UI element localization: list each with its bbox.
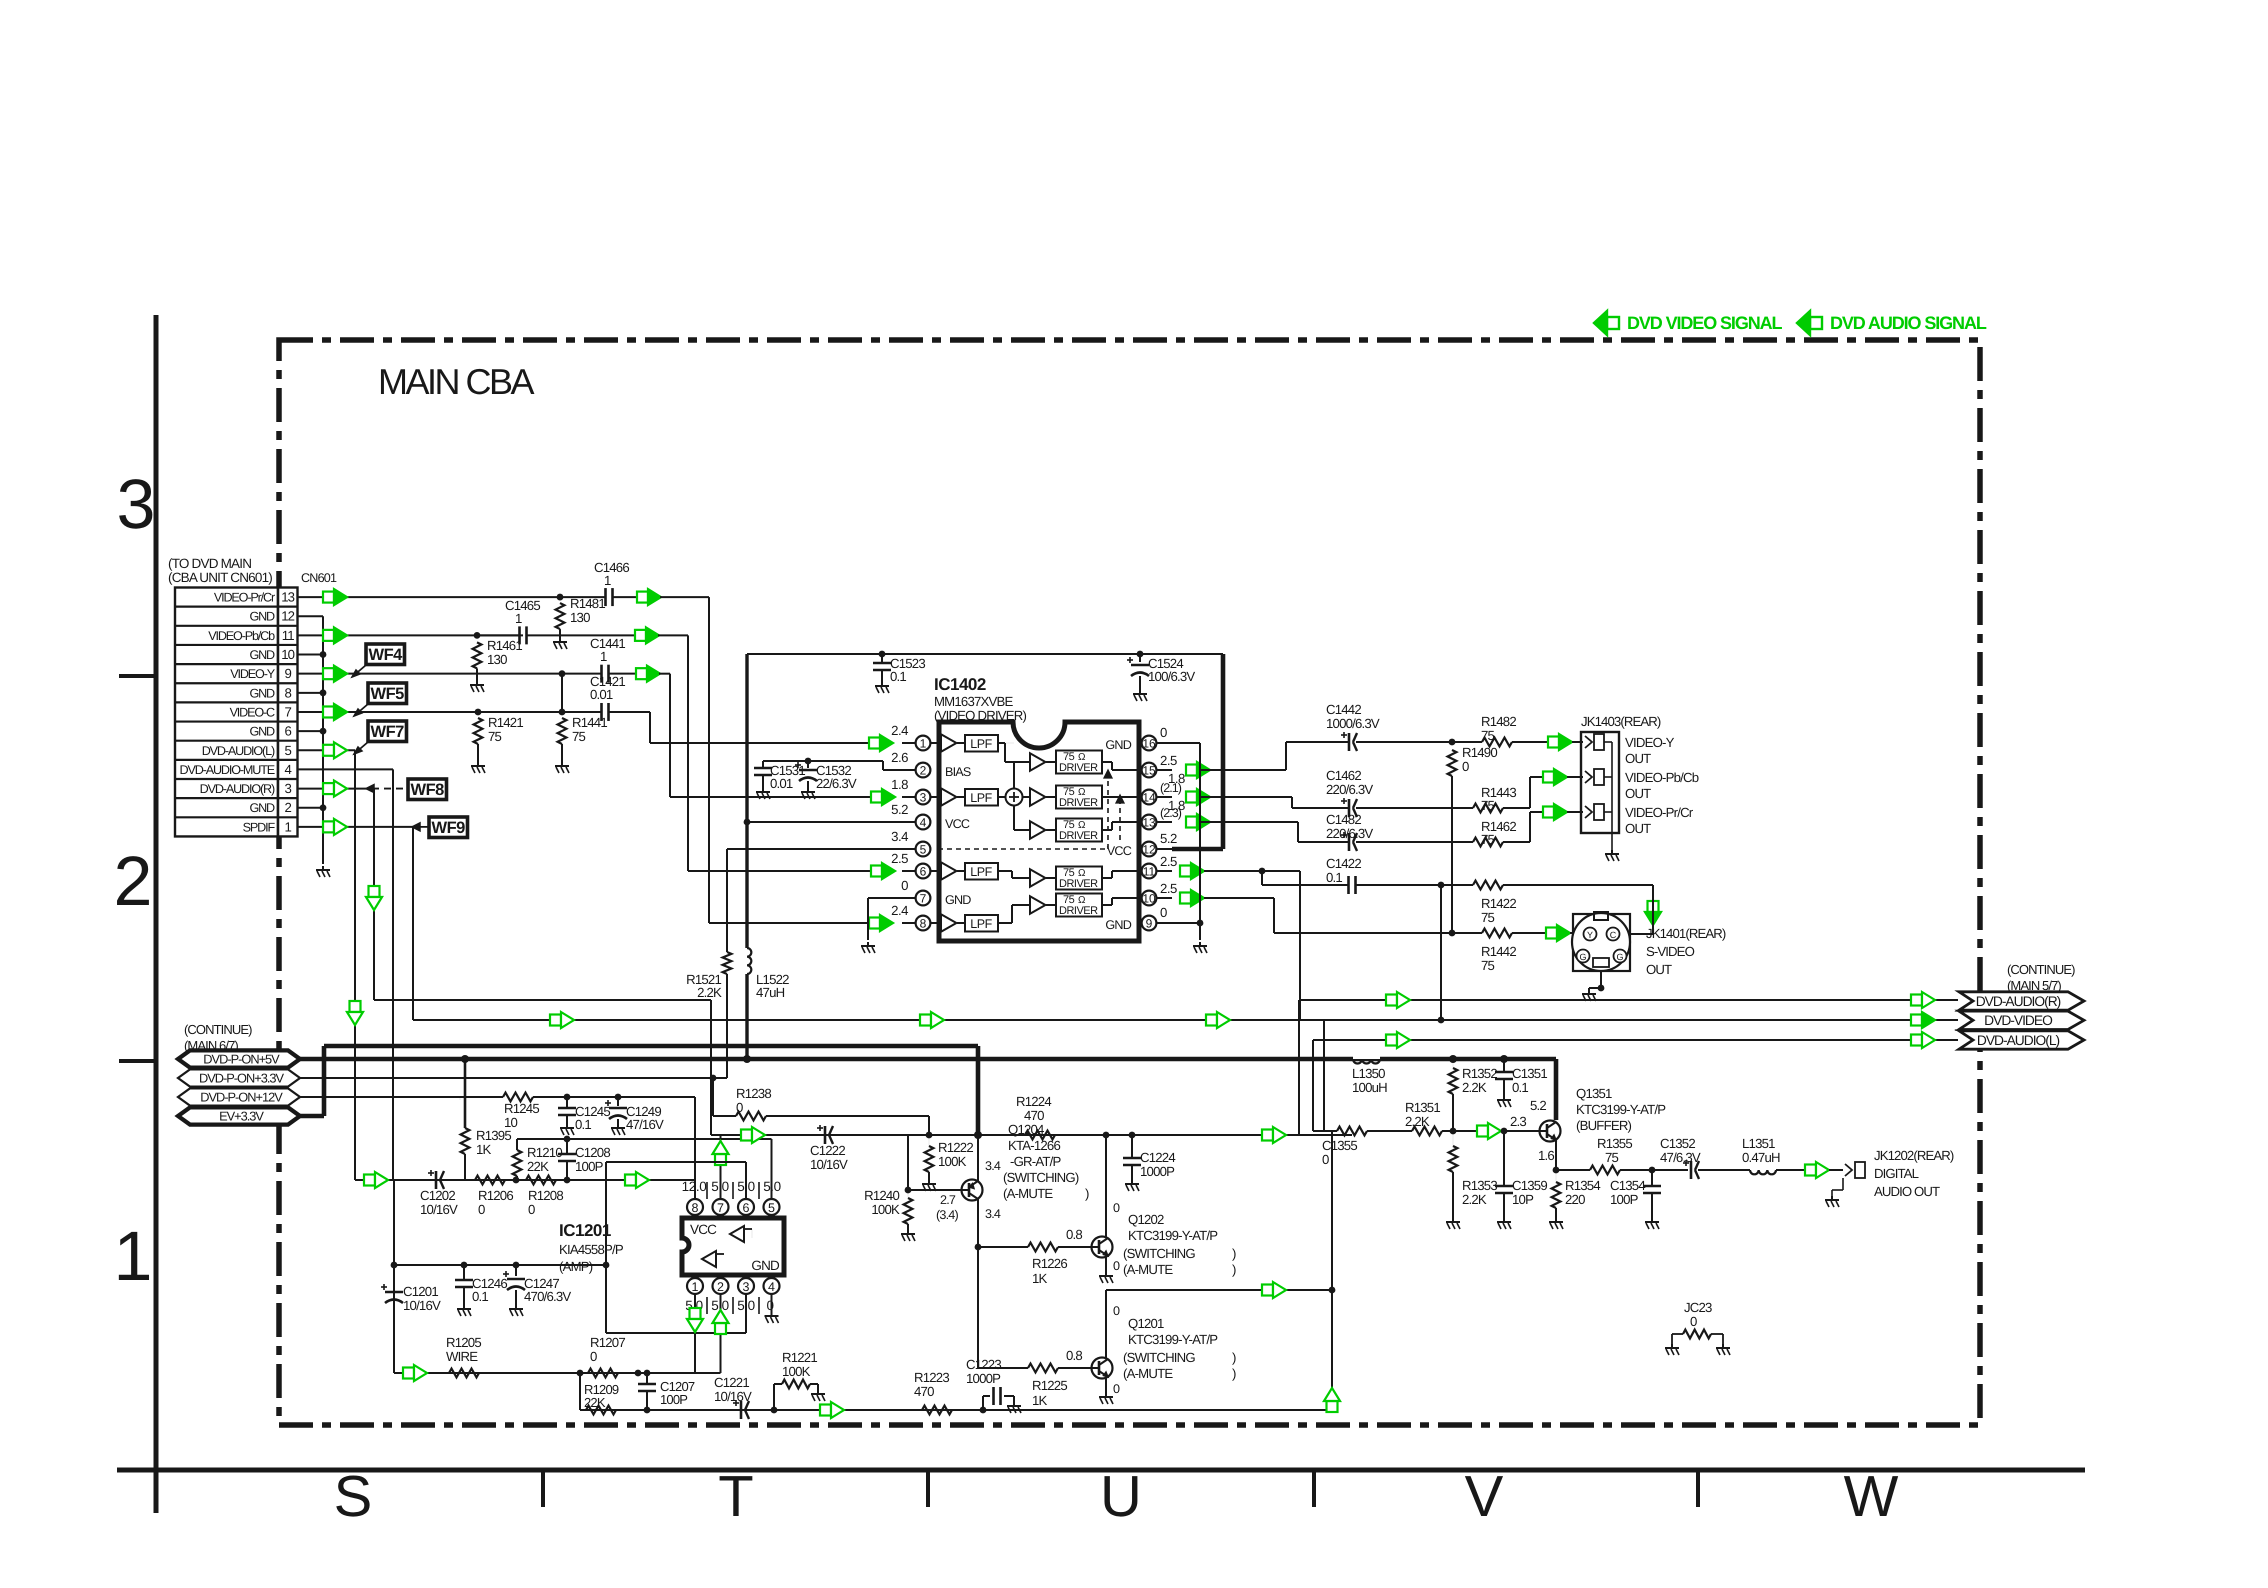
green arrow Q1351 base [1477, 1126, 1488, 1137]
legend icon DVD VIDEO SIGNAL arrow [1607, 317, 1619, 329]
svg-text:R1441: R1441 [572, 715, 607, 730]
svg-text:0: 0 [1690, 1314, 1697, 1329]
green arrow bottom rail [820, 1405, 831, 1416]
arrow WF7 to DVD-AUDIO(L) [354, 742, 368, 754]
net DVD-P-ON+3.3V banner [178, 1069, 300, 1086]
ground C1359 [1503, 1218, 1505, 1222]
svg-text:DRIVER: DRIVER [1059, 878, 1098, 890]
wire IC pin5 to R1521 [727, 848, 902, 850]
node junction pin7/R1441 [559, 709, 566, 716]
wire IC pin2 BIAS [883, 769, 902, 771]
green arrow pin9 [323, 668, 334, 679]
wire IC1201 pin2 down [720, 1294, 722, 1373]
ground JC23 right [1722, 1344, 1724, 1348]
capacitor C1523 [881, 654, 883, 663]
svg-text:R1461: R1461 [487, 638, 522, 653]
svg-text:1: 1 [920, 737, 927, 751]
wire Q1351 emitter [1555, 1140, 1557, 1170]
svg-text:1: 1 [604, 573, 611, 588]
svg-text:2.2K: 2.2K [1405, 1114, 1430, 1129]
wire JK1401 C pin [1652, 885, 1654, 934]
wire VCC feed vertical [745, 654, 748, 948]
svg-text:C1221: C1221 [714, 1375, 749, 1390]
wire pin11 staircase to IC pin6 [658, 634, 688, 636]
svg-text:DIGITAL: DIGITAL [1874, 1166, 1919, 1181]
transistor Q1202 [1092, 1237, 1113, 1258]
node video to DVD-VIDEO [1438, 882, 1445, 889]
svg-text:CN601: CN601 [301, 571, 337, 585]
node L1522/+5V [743, 1055, 751, 1063]
net DVD-VIDEO banner [1959, 1011, 2084, 1029]
arrow WF8 dashed to DVD-AUDIO(R) [372, 788, 407, 790]
svg-text:OUT: OUT [1646, 962, 1672, 977]
wire C1441 to R1441 [561, 674, 563, 712]
svg-text:VCC: VCC [690, 1222, 717, 1237]
svg-text:R1210: R1210 [527, 1145, 562, 1160]
green arrow pin3 [323, 783, 334, 794]
svg-text:R1482: R1482 [1481, 714, 1516, 729]
wire bottom rail [580, 1409, 1332, 1411]
svg-text:0: 0 [1462, 759, 1469, 774]
IC1402 input amp y923 [930, 922, 941, 924]
svg-text:1000/6.3V: 1000/6.3V [1326, 716, 1380, 731]
wire DVD-AUDIO(L) long [1313, 1039, 1958, 1041]
wire +3.3V rail [300, 1077, 727, 1079]
svg-text:2: 2 [284, 800, 291, 815]
svg-text:13: 13 [1142, 816, 1156, 830]
svg-text:LPF: LPF [970, 917, 992, 931]
capacitor C1249 [617, 1097, 619, 1106]
ground R1222 [928, 1180, 930, 1184]
capacitor C1223 loop [982, 1396, 984, 1410]
op-amp IC1402 body [939, 722, 1139, 941]
svg-text:): ) [1085, 1186, 1089, 1201]
node Q1351 base [1464, 1130, 1466, 1132]
svg-text:1K: 1K [1032, 1271, 1048, 1286]
svg-text:(AMP): (AMP) [559, 1259, 593, 1274]
capacitor C1421 [600, 703, 603, 721]
wire Q1351 collector [1555, 1059, 1557, 1122]
IC1402 LPF box 4 [965, 915, 998, 932]
wire IC pin7 GND [868, 897, 902, 899]
resistor JC23 [1672, 1333, 1683, 1335]
IC1402 pin 11 [1156, 870, 1172, 872]
node C1523 [879, 651, 886, 658]
svg-text:220/6.3V: 220/6.3V [1326, 826, 1373, 841]
svg-text:5.2: 5.2 [891, 802, 908, 817]
resistor R1352 [1452, 1059, 1454, 1068]
frame left border line [154, 315, 159, 1513]
IC1402 input amp y743 [930, 742, 941, 744]
IC1402 input amp y871 [930, 870, 941, 872]
ground C1531 [762, 788, 764, 792]
node Q1202 collector rail [1129, 1132, 1136, 1139]
svg-text:GND: GND [249, 725, 275, 739]
IC1402 pin 15 [1156, 769, 1172, 771]
capacitor C1462 [1348, 799, 1351, 817]
ground JK1202 [1831, 1196, 1833, 1200]
svg-text:R1490: R1490 [1462, 745, 1497, 760]
green arrow video line 1 [550, 1015, 561, 1026]
svg-text:WIRE: WIRE [446, 1349, 478, 1364]
wire EV+3.3V heavy [300, 1114, 324, 1119]
svg-text:KTC3199-Y-AT/P: KTC3199-Y-AT/P [1128, 1228, 1218, 1243]
svg-text:6: 6 [920, 865, 927, 879]
IC1402 pin 10 [1156, 897, 1172, 899]
wire +5V heavy rail [300, 1057, 1556, 1062]
green arrow Q1201 out [1262, 1285, 1273, 1296]
green arrow pin1 [323, 821, 334, 832]
flag WF4 [366, 644, 405, 665]
svg-text:LPF: LPF [970, 737, 992, 751]
ground C1523 [881, 682, 883, 686]
green arrow pin13 [323, 592, 334, 603]
svg-text:C1465: C1465 [505, 598, 540, 613]
svg-text:R1208: R1208 [528, 1188, 563, 1203]
svg-text:10/16V: 10/16V [714, 1389, 752, 1404]
op-amp IC1201 body [682, 1218, 784, 1275]
green arrow AUDIO(L) mid [1386, 1035, 1397, 1046]
svg-text:2.2K: 2.2K [1462, 1080, 1487, 1095]
resistor R1205 [449, 1369, 479, 1378]
IC1201 pin 6 [745, 1209, 747, 1218]
svg-text:DVD-AUDIO(L): DVD-AUDIO(L) [202, 744, 275, 758]
svg-text:7: 7 [717, 1201, 724, 1215]
svg-text:-GR-AT/P: -GR-AT/P [1010, 1154, 1062, 1169]
svg-text:12: 12 [1142, 843, 1156, 857]
IC1402 wire LPF3 to driver4 [998, 870, 1012, 872]
svg-text:13: 13 [281, 590, 294, 605]
green arrow IC pin6 [871, 866, 882, 877]
resistor R1481 [556, 603, 565, 629]
svg-text:1: 1 [600, 649, 607, 664]
wire IC pin16 GND [1172, 742, 1200, 744]
wire pin3 DVD-AUDIO(R) down [298, 788, 375, 790]
svg-text:(BUFFER): (BUFFER) [1576, 1118, 1632, 1133]
svg-text:1K: 1K [476, 1142, 492, 1157]
svg-text:6: 6 [284, 724, 291, 739]
axis tick S/T [541, 1470, 545, 1507]
ground Q1202 [1105, 1272, 1107, 1276]
svg-text:1000P: 1000P [966, 1371, 1001, 1386]
svg-text:2: 2 [114, 842, 153, 920]
svg-text:U: U [1100, 1464, 1142, 1529]
svg-text:Y: Y [1587, 930, 1593, 940]
svg-text:DRIVER: DRIVER [1059, 905, 1098, 917]
green arrow after C1465 [635, 630, 646, 641]
ground R1461 [476, 681, 478, 685]
svg-text:2.3: 2.3 [1510, 1114, 1526, 1129]
node +5V/R1395 [461, 1055, 469, 1063]
wire IC1201 pin1 down [694, 1294, 696, 1373]
svg-text:2.5: 2.5 [891, 851, 908, 866]
svg-text:C1201: C1201 [403, 1284, 438, 1299]
svg-text:75: 75 [1605, 1150, 1619, 1165]
svg-text:C1359: C1359 [1512, 1178, 1547, 1193]
svg-text:IC1402: IC1402 [934, 675, 986, 694]
svg-text:100K: 100K [938, 1154, 967, 1169]
resistor R1354 [1555, 1170, 1557, 1182]
capacitor C1352 [1690, 1161, 1693, 1179]
svg-text:2.4: 2.4 [891, 903, 908, 918]
node Q1201 out [1329, 1287, 1336, 1294]
svg-text:3: 3 [920, 791, 927, 805]
IC1402 LPF box 1 [965, 735, 998, 752]
svg-text:1.6: 1.6 [1538, 1148, 1554, 1163]
wire pin9 staircase to IC pin3 [659, 673, 670, 675]
node C1247 [513, 1262, 520, 1269]
ground R1240 [907, 1230, 909, 1234]
svg-text:VCC: VCC [1107, 844, 1132, 858]
wire pin4 DVD-AUDIO-MUTE down [298, 768, 394, 770]
node C1223 [980, 1407, 987, 1414]
wire audio L riser [1331, 1131, 1333, 1410]
svg-text:10: 10 [504, 1115, 518, 1130]
node +3.3V/R1238 [710, 1075, 717, 1082]
svg-text:0: 0 [1113, 1259, 1120, 1273]
resistor R1355 [1590, 1166, 1620, 1175]
svg-text:Q1201: Q1201 [1128, 1316, 1164, 1331]
ground R1221 [817, 1390, 819, 1394]
svg-text:Q1351: Q1351 [1576, 1086, 1612, 1101]
svg-text:8: 8 [284, 685, 291, 700]
ground C1354 [1651, 1218, 1653, 1222]
resistor R1226 [978, 1246, 1028, 1248]
svg-text:R1221: R1221 [782, 1350, 817, 1365]
svg-text:R1207: R1207 [590, 1335, 625, 1350]
node C1532 [805, 758, 812, 765]
IC1402 75ohm DRIVER box 5 [1056, 894, 1102, 917]
resistor R1482 [1452, 741, 1482, 743]
svg-text:75: 75 [1481, 958, 1495, 973]
svg-text:3: 3 [117, 465, 156, 543]
ground C1532 [807, 788, 809, 792]
wire Q1204 collector [977, 1199, 979, 1247]
wire +12V to IC1201 pin8 [694, 1097, 696, 1201]
svg-text:DVD-AUDIO(R): DVD-AUDIO(R) [1976, 994, 2061, 1009]
resistor R1208 [526, 1176, 556, 1185]
svg-text:10P: 10P [1512, 1192, 1534, 1207]
resistor R1462 [1473, 838, 1503, 847]
svg-text:R1245: R1245 [504, 1101, 539, 1116]
IC1402 75ohm DRIVER box 4 [1056, 867, 1102, 890]
svg-text:T: T [718, 1464, 753, 1529]
svg-text:0: 0 [1322, 1152, 1329, 1167]
ground JK1403 [1611, 850, 1613, 854]
svg-text:5: 5 [284, 743, 291, 758]
svg-text:C1462: C1462 [1326, 768, 1361, 783]
svg-text:75: 75 [488, 729, 502, 744]
svg-text:0: 0 [1160, 725, 1167, 740]
svg-text:75: 75 [1481, 798, 1495, 813]
wire pin9 VIDEO-Y to C1441 [298, 673, 563, 675]
svg-text:DVD-AUDIO-MUTE: DVD-AUDIO-MUTE [180, 763, 275, 777]
IC1201 pin 1 [687, 1278, 703, 1294]
svg-text:100K: 100K [782, 1364, 811, 1379]
svg-text:MAIN CBA: MAIN CBA [378, 361, 535, 402]
svg-text:C1482: C1482 [1326, 812, 1361, 827]
svg-text:0: 0 [901, 878, 908, 893]
ground R1354 [1555, 1218, 1557, 1222]
green arrow after C1441 [636, 668, 647, 679]
resistor R1421 [474, 718, 483, 744]
svg-text:AUDIO OUT: AUDIO OUT [1874, 1184, 1940, 1199]
green arrow S-video Y [1546, 928, 1557, 939]
svg-text:1: 1 [692, 1280, 699, 1294]
node C1224 [1103, 1132, 1110, 1139]
node C1354 [1649, 1167, 1656, 1174]
svg-text:WF7: WF7 [371, 723, 405, 741]
svg-text:1: 1 [114, 1217, 153, 1295]
resistor R1221 loop [771, 1407, 778, 1414]
IC1201 pin 5 [771, 1209, 773, 1218]
svg-text:C1224: C1224 [1140, 1150, 1175, 1165]
svg-text:WF8: WF8 [411, 781, 445, 799]
axis tick V/W [1696, 1470, 1700, 1507]
svg-text:0.1: 0.1 [575, 1117, 591, 1132]
svg-text:C1442: C1442 [1326, 702, 1361, 717]
svg-text:IC1201: IC1201 [559, 1221, 611, 1240]
svg-text:): ) [1232, 1350, 1236, 1365]
ground R1353 [1452, 1218, 1454, 1222]
inductor L1350 [1353, 1050, 1380, 1059]
frame bottom axis [117, 1468, 2085, 1473]
wire +5V down to Q1351 [1554, 1059, 1559, 1120]
svg-text:DVD-VIDEO: DVD-VIDEO [1984, 1013, 2053, 1028]
svg-text:VIDEO-Pb/Cb: VIDEO-Pb/Cb [1625, 770, 1699, 785]
green arrow pin7 [323, 706, 334, 717]
frame tick row 2/1 [119, 1059, 156, 1063]
node junction pin11/R1461 [474, 632, 481, 639]
IC1201 pin 8 [694, 1209, 696, 1218]
svg-text:JK1202(REAR): JK1202(REAR) [1874, 1148, 1954, 1163]
JK1403 ground bus [1611, 742, 1613, 850]
arrow WF9 to SPDIF [414, 826, 428, 828]
resistor R1207 [588, 1369, 618, 1378]
ground IC pin7 [867, 942, 869, 946]
svg-text:): ) [1232, 1246, 1236, 1261]
node R1352 bottom [1450, 1128, 1457, 1135]
svg-text:6: 6 [743, 1201, 750, 1215]
svg-text:): ) [1232, 1366, 1236, 1381]
wire VCC top rail [747, 653, 1223, 655]
green arrow amp rail 1 [364, 1175, 375, 1186]
svg-text:R1422: R1422 [1481, 896, 1516, 911]
wire DVD-AUDIO(R) long [1299, 999, 1958, 1001]
svg-text:R1224: R1224 [1016, 1094, 1051, 1109]
svg-text:L1351: L1351 [1742, 1136, 1775, 1151]
resistor R1238 [713, 1115, 736, 1117]
svg-text:R1421: R1421 [488, 715, 523, 730]
svg-text:Q1202: Q1202 [1128, 1212, 1164, 1227]
wire pin1 SPDIF down [298, 826, 414, 828]
IC1402 sum node [1006, 789, 1023, 806]
IC1402 wire to driver3 [1013, 806, 1015, 831]
ground C1247 [515, 1305, 517, 1309]
capacitor C1246 [463, 1265, 465, 1280]
capacitor C1201 [385, 1291, 403, 1294]
svg-text:R1481: R1481 [570, 596, 605, 611]
svg-text:100P: 100P [1610, 1192, 1639, 1207]
node junction pin7/R1421 [475, 709, 482, 716]
wire pin13 VIDEO-Pr/Cr to C1466 [298, 596, 561, 598]
svg-text:(SWITCHING): (SWITCHING) [1003, 1170, 1079, 1185]
jumper C1355 [1337, 1127, 1367, 1136]
svg-text:C1202: C1202 [420, 1188, 455, 1203]
IC1402 75ohm DRIVER box 1 [1056, 751, 1102, 774]
svg-text:3: 3 [743, 1280, 750, 1294]
svg-text:0: 0 [478, 1202, 485, 1217]
svg-text:0.1: 0.1 [890, 669, 906, 684]
svg-text:VIDEO-Pb/Cb: VIDEO-Pb/Cb [208, 629, 275, 643]
svg-text:3.4: 3.4 [985, 1207, 1001, 1221]
svg-text:VIDEO-Y: VIDEO-Y [1625, 735, 1675, 750]
svg-text:75: 75 [1481, 832, 1495, 847]
IC1201 amp A [730, 1226, 744, 1242]
green arrow video line end [1911, 1015, 1922, 1026]
svg-text:0: 0 [736, 1100, 743, 1115]
capacitor C1531 [762, 761, 764, 768]
node loop/mute [603, 1262, 610, 1269]
svg-text:14: 14 [1142, 791, 1156, 805]
flag WF8 [408, 779, 447, 800]
svg-text:5: 5 [768, 1201, 775, 1215]
svg-text:R1205: R1205 [446, 1335, 481, 1350]
wire R1240 base rail [908, 1189, 961, 1191]
node junction pin9/C1441 [559, 670, 566, 677]
wire pin7 staircase to IC pin1 [649, 712, 651, 743]
svg-text:): ) [1232, 1262, 1236, 1277]
wire IC pin15 to C1442 [1201, 769, 1286, 771]
svg-text:100P: 100P [575, 1159, 604, 1174]
wire C1422 branch [1261, 871, 1263, 885]
wire +12V rail [299, 1097, 301, 1100]
svg-text:WF9: WF9 [432, 819, 466, 837]
svg-text:GND: GND [1105, 918, 1131, 932]
svg-text:C1352: C1352 [1660, 1136, 1695, 1151]
net DVD-AUDIO(L) banner [1959, 1031, 2084, 1049]
svg-text:GND: GND [249, 648, 275, 662]
svg-text:47/6.3V: 47/6.3V [1660, 1150, 1701, 1165]
wire R1240 riser [907, 1135, 909, 1190]
IC1402 pin 9 [1156, 922, 1172, 924]
svg-text:4: 4 [920, 816, 927, 830]
svg-text:R1352: R1352 [1462, 1066, 1497, 1081]
wire Q1201 collector [1105, 1290, 1107, 1359]
IC1402 pin 1 [902, 742, 916, 744]
net EV+3.3V banner [178, 1107, 300, 1124]
svg-text:MM1637XVBE: MM1637XVBE [934, 694, 1013, 709]
svg-text:75: 75 [572, 729, 586, 744]
svg-text:0: 0 [590, 1349, 597, 1364]
svg-text:OUT: OUT [1625, 751, 1651, 766]
svg-text:C: C [1610, 930, 1617, 940]
svg-text:DVD-AUDIO(R): DVD-AUDIO(R) [200, 782, 275, 796]
node R1222 top [926, 1132, 933, 1139]
svg-text:12: 12 [281, 609, 294, 624]
IC1201 pin 7 [720, 1209, 722, 1218]
node junction pin13/R1481 [557, 594, 564, 601]
ground GND bus [322, 866, 324, 870]
svg-text:OUT: OUT [1625, 821, 1651, 836]
svg-text:DRIVER: DRIVER [1059, 762, 1098, 774]
svg-text:0: 0 [1113, 1382, 1120, 1396]
net DVD-AUDIO(R) banner [1959, 992, 2084, 1010]
svg-text:22/6.3V: 22/6.3V [816, 776, 857, 791]
wire GND bus from pins 12/10/8/6/2 [298, 615, 324, 617]
resistor R1240 [907, 1190, 909, 1198]
ground C1224 [1131, 1180, 1133, 1184]
